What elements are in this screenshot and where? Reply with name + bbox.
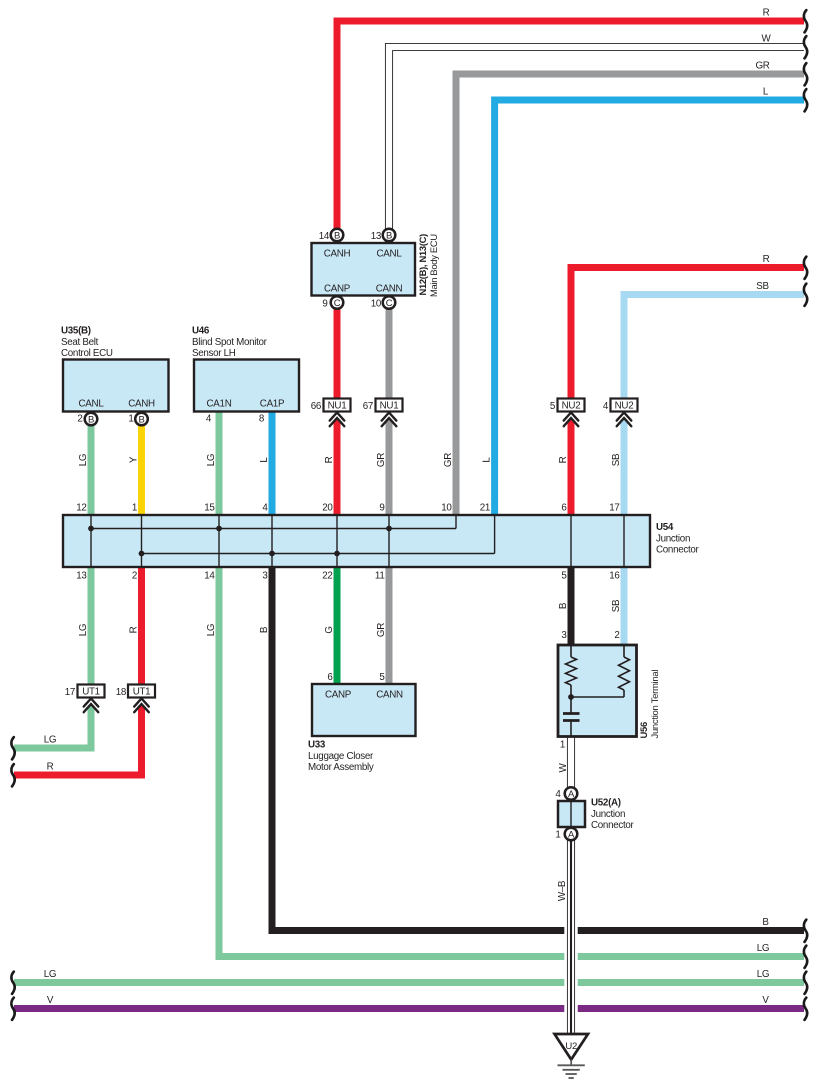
svg-text:20: 20 xyxy=(322,503,333,514)
svg-text:U56: U56 xyxy=(639,722,650,739)
wire break left y=982.5 xyxy=(11,972,14,994)
svg-text:U35(B): U35(B) xyxy=(61,326,91,337)
svg-text:9: 9 xyxy=(379,503,384,514)
wire W from U56 pin 1 to U52 pin 4 xyxy=(567,737,575,802)
svg-text:1: 1 xyxy=(128,414,133,425)
svg-text:16: 16 xyxy=(609,571,620,582)
wire break right y=956.5 xyxy=(804,946,807,968)
svg-text:B: B xyxy=(334,230,340,241)
wire L from right edge down to U54 pin 21 xyxy=(495,100,804,515)
svg-text:B: B xyxy=(386,230,392,241)
svg-text:A: A xyxy=(568,829,575,840)
svg-text:CANP: CANP xyxy=(324,284,351,295)
svg-text:LG: LG xyxy=(757,943,769,954)
svg-text:LG: LG xyxy=(78,624,89,636)
wire SB from U54 pin 16 to U56 pin 2 xyxy=(621,567,628,645)
svg-text:2: 2 xyxy=(132,571,137,582)
svg-text:4: 4 xyxy=(262,503,268,514)
svg-text:W–B: W–B xyxy=(557,880,568,901)
wire R from right edge down to NU2 5 xyxy=(571,268,804,399)
svg-text:13: 13 xyxy=(371,231,382,242)
svg-text:NU2: NU2 xyxy=(562,401,581,412)
wire break right y=267.5 xyxy=(804,257,807,279)
wire LG from UT1 17 to left edge xyxy=(14,706,91,748)
svg-text:6: 6 xyxy=(561,503,567,514)
svg-text:15: 15 xyxy=(204,503,215,514)
svg-text:CANL: CANL xyxy=(79,399,105,410)
svg-text:GR: GR xyxy=(376,453,387,467)
wire R from U54 pin 2 to UT1 18 xyxy=(138,567,145,685)
svg-text:22: 22 xyxy=(322,571,332,582)
svg-text:66: 66 xyxy=(311,401,322,412)
junction connector U52(A) box xyxy=(558,801,585,827)
svg-text:5: 5 xyxy=(379,672,385,683)
svg-text:21: 21 xyxy=(480,503,490,514)
svg-text:Connector: Connector xyxy=(656,545,700,556)
luggage closer motor assembly U33 box xyxy=(312,684,416,736)
wire LG from U54 pin 13 to UT1 17 xyxy=(88,567,95,685)
svg-text:1: 1 xyxy=(555,830,560,841)
N12 pin 9 connector C xyxy=(331,296,344,309)
svg-text:14: 14 xyxy=(319,231,330,242)
wire GR from U54 pin 11 to U33 pin 5 xyxy=(386,567,393,684)
svg-text:Sensor LH: Sensor LH xyxy=(192,348,236,359)
svg-text:R: R xyxy=(129,626,140,633)
U54 junction nodes xyxy=(88,526,392,557)
svg-text:R: R xyxy=(558,456,569,463)
svg-text:NU2: NU2 xyxy=(615,401,634,412)
svg-text:NU1: NU1 xyxy=(328,401,347,412)
svg-text:GR: GR xyxy=(755,61,769,72)
svg-text:CA1N: CA1N xyxy=(207,399,232,410)
svg-text:6: 6 xyxy=(327,672,333,683)
wire break right y=930.5 xyxy=(804,920,807,942)
N12 pin 14 connector B xyxy=(331,229,344,242)
svg-text:C: C xyxy=(334,298,341,309)
ground U2 xyxy=(555,1034,589,1078)
wire break left y=748 xyxy=(11,737,14,759)
blind spot monitor sensor LH U46 box xyxy=(194,360,299,412)
connector NU2 5 xyxy=(550,399,585,427)
junction terminal U56 box xyxy=(558,645,637,737)
connector UT1 17 xyxy=(65,685,105,713)
svg-text:14: 14 xyxy=(204,571,215,582)
wire SB from right edge down to NU2 4 xyxy=(624,295,804,399)
svg-text:N12(B), N13(C): N12(B), N13(C) xyxy=(417,234,428,296)
svg-text:LG: LG xyxy=(44,735,56,746)
svg-text:10: 10 xyxy=(371,299,382,310)
svg-text:17: 17 xyxy=(65,687,75,698)
svg-text:3: 3 xyxy=(262,571,268,582)
svg-text:U46: U46 xyxy=(192,326,210,337)
wire R from N12 pin 9 to NU1 66 xyxy=(334,296,341,399)
svg-text:13: 13 xyxy=(76,571,87,582)
svg-text:R: R xyxy=(763,8,770,19)
U52 pin 4 connector A xyxy=(565,787,578,800)
svg-text:Junction: Junction xyxy=(591,809,625,820)
svg-text:LG: LG xyxy=(44,969,56,980)
svg-text:LG: LG xyxy=(78,454,89,466)
svg-text:L: L xyxy=(763,87,769,98)
svg-text:Junction: Junction xyxy=(656,534,690,545)
wire break right y=100 xyxy=(804,89,807,111)
svg-text:CANN: CANN xyxy=(376,284,403,295)
svg-text:Motor Assembly: Motor Assembly xyxy=(308,762,374,773)
svg-text:18: 18 xyxy=(116,687,127,698)
svg-text:CANP: CANP xyxy=(325,690,352,701)
svg-text:CANN: CANN xyxy=(376,690,403,701)
svg-text:L: L xyxy=(259,457,270,463)
svg-text:R: R xyxy=(763,254,770,265)
svg-text:U54: U54 xyxy=(656,522,674,533)
wire break right y=982.5 xyxy=(804,972,807,994)
svg-text:67: 67 xyxy=(363,401,373,412)
wire GR from NU1 67 to U54 pin 9 xyxy=(386,420,393,515)
svg-text:R: R xyxy=(47,762,54,773)
svg-text:L: L xyxy=(482,457,493,463)
connector NU1 66 xyxy=(311,399,351,427)
seat belt control ECU U35(B) box xyxy=(63,360,169,412)
svg-text:GR: GR xyxy=(376,623,387,637)
wire break right y=1008.5 xyxy=(804,998,807,1020)
svg-text:Main Body ECU: Main Body ECU xyxy=(428,234,439,297)
wire G from U54 pin 22 to U33 pin 6 xyxy=(334,567,341,684)
junction connector U54 box xyxy=(63,515,650,567)
main body ECU N12(B)/N13(C) box xyxy=(312,243,416,296)
svg-text:17: 17 xyxy=(609,503,619,514)
U35 pin 1 connector B xyxy=(135,413,148,426)
wire GR from right edge down to U54 pin 10 xyxy=(456,74,804,515)
svg-text:SB: SB xyxy=(611,599,622,612)
svg-text:5: 5 xyxy=(561,571,567,582)
U54 internal bus wiring xyxy=(91,515,624,567)
svg-text:LG: LG xyxy=(757,969,769,980)
svg-text:V: V xyxy=(47,995,54,1006)
svg-text:4: 4 xyxy=(555,789,561,800)
wire R from N12 pin 14 to right edge xyxy=(337,21,804,243)
svg-text:R: R xyxy=(324,456,335,463)
svg-text:1: 1 xyxy=(132,503,137,514)
wire LG from U54 pin 14 to right edge xyxy=(219,567,804,957)
svg-text:12: 12 xyxy=(76,503,86,514)
svg-text:NU1: NU1 xyxy=(380,401,399,412)
wire GR from N12 pin 10 to NU1 67 xyxy=(386,296,393,399)
wire break right y=74 xyxy=(804,63,807,85)
svg-text:Seat Belt: Seat Belt xyxy=(61,337,99,348)
svg-text:1: 1 xyxy=(560,740,565,751)
wire B from U54 pin 3 to right edge xyxy=(272,567,804,931)
N12 pin 13 connector B xyxy=(383,229,396,242)
wire W-B from U52 pin 1 to ground U2 xyxy=(564,827,577,1034)
wire Y from U35 pin 1 to U54 pin 1 xyxy=(138,412,145,516)
svg-text:11: 11 xyxy=(375,571,385,582)
svg-text:A: A xyxy=(568,789,575,800)
wire LG from left edge to right edge xyxy=(14,979,804,986)
svg-text:GR: GR xyxy=(443,453,454,467)
svg-text:8: 8 xyxy=(259,414,265,425)
svg-text:SB: SB xyxy=(756,281,769,292)
U56 internal resistors and capacitor xyxy=(563,645,630,737)
svg-text:B: B xyxy=(88,414,94,425)
U52 pin 1 connector A xyxy=(565,828,578,841)
svg-text:CANH: CANH xyxy=(128,399,155,410)
wire V from left edge to right edge xyxy=(14,1005,804,1012)
svg-text:W: W xyxy=(558,762,569,772)
svg-text:SB: SB xyxy=(611,453,622,466)
wire W from N12 pin 13 to right edge xyxy=(389,47,804,243)
svg-text:Y: Y xyxy=(129,456,140,463)
svg-text:B: B xyxy=(259,626,270,633)
svg-text:G: G xyxy=(324,626,335,633)
svg-text:V: V xyxy=(762,995,769,1006)
svg-text:U2: U2 xyxy=(565,1041,577,1052)
svg-text:Blind Spot Monitor: Blind Spot Monitor xyxy=(192,337,268,348)
svg-text:B: B xyxy=(558,602,569,609)
connector NU2 4 xyxy=(603,399,638,427)
wire LG from U46 pin 4 to U54 pin 15 xyxy=(216,412,223,516)
wire R from NU1 66 to U54 pin 20 xyxy=(334,420,341,515)
svg-text:CANL: CANL xyxy=(377,249,403,260)
U35 pin 2 connector B xyxy=(85,413,98,426)
svg-text:2: 2 xyxy=(614,630,619,641)
svg-text:CANH: CANH xyxy=(324,249,351,260)
svg-text:9: 9 xyxy=(322,299,327,310)
svg-text:4: 4 xyxy=(603,401,609,412)
wire B from U54 pin 5 to U56 pin 3 xyxy=(568,567,575,645)
svg-text:5: 5 xyxy=(550,401,556,412)
wire R from UT1 18 to left edge xyxy=(14,706,142,775)
svg-text:LG: LG xyxy=(206,624,217,636)
N12 pin 10 connector C xyxy=(383,296,396,309)
svg-text:Connector: Connector xyxy=(591,820,635,831)
wire SB from NU2 4 to U54 pin 17 xyxy=(621,420,628,515)
svg-text:Control ECU: Control ECU xyxy=(61,348,113,359)
wire R from NU2 5 to U54 pin 6 xyxy=(568,420,575,515)
svg-text:C: C xyxy=(386,298,393,309)
wire break left y=1008.5 xyxy=(11,998,14,1020)
wire break right y=21 xyxy=(804,10,807,32)
svg-text:2: 2 xyxy=(77,414,82,425)
svg-text:W: W xyxy=(762,34,772,45)
svg-text:CA1P: CA1P xyxy=(260,399,285,410)
svg-text:LG: LG xyxy=(206,454,217,466)
connector UT1 18 xyxy=(116,685,155,713)
svg-text:B: B xyxy=(762,917,769,928)
svg-text:4: 4 xyxy=(206,414,212,425)
connector NU1 67 xyxy=(363,399,403,427)
svg-text:UT1: UT1 xyxy=(82,687,100,698)
wire LG from U35 pin 2 to U54 pin 12 xyxy=(88,412,95,516)
svg-text:Junction Terminal: Junction Terminal xyxy=(650,670,661,739)
wire break right y=47 xyxy=(804,36,807,58)
wire L from U46 pin 8 to U54 pin 4 xyxy=(269,412,276,516)
svg-text:Luggage Closer: Luggage Closer xyxy=(308,751,374,762)
svg-text:10: 10 xyxy=(441,503,452,514)
svg-text:UT1: UT1 xyxy=(133,687,151,698)
wire break right y=294.5 xyxy=(804,284,807,306)
svg-text:B: B xyxy=(138,414,144,425)
wire break left y=775 xyxy=(11,764,14,786)
svg-text:U33: U33 xyxy=(308,740,326,751)
svg-text:U52(A): U52(A) xyxy=(591,798,621,809)
svg-text:3: 3 xyxy=(561,630,567,641)
